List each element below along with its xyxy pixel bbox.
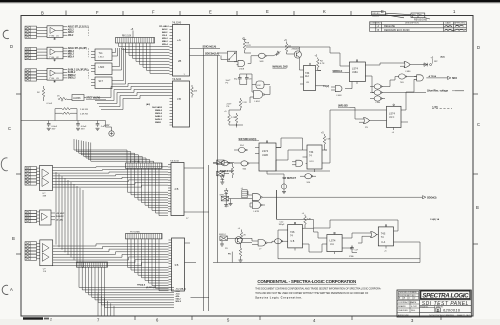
svg-text:DATE: DATE (411, 301, 417, 304)
svg-text:SMB2: SMB2 (155, 122, 162, 124)
svg-text:CHECKED: CHECKED (398, 310, 408, 312)
node output nets (68, 26, 90, 37)
buffer U34 74LS240 (172, 238, 185, 291)
svg-text:+5 LDC: +5 LDC (56, 220, 64, 222)
svg-text:2: 2 (50, 318, 52, 322)
buffer gate U12A (238, 147, 246, 152)
svg-text:LM336: LM336 (73, 97, 81, 100)
svg-text:LS24: LS24 (255, 101, 261, 103)
svg-text:E: E (209, 10, 212, 15)
svg-text:SPECTRA LOGIC: SPECTRA LOGIC (422, 293, 469, 300)
svg-text:4.7K: 4.7K (320, 63, 325, 65)
svg-text:SDICA#(2,4): SDICA#(2,4) (203, 46, 217, 49)
svg-text:TY90: TY90 (49, 36, 55, 38)
svg-text:4.7K: 4.7K (246, 45, 251, 47)
svg-text:RELEASE: RELEASE (384, 25, 395, 28)
diode CR1 (274, 51, 281, 56)
resistor R1 3K (43, 86, 45, 89)
flip-flop U9A 74S74 (300, 62, 325, 91)
resistor pack RN2 (241, 188, 248, 198)
resistor R5 (191, 85, 193, 87)
buffer U6 74LS240 (159, 23, 190, 76)
svg-text:6200016: 6200016 (443, 307, 461, 312)
wire J3 pin drops to U34 (128, 239, 169, 291)
wire (245, 53, 274, 63)
resistor R15 (304, 215, 306, 216)
scanner edge strip top (0, 0, 500, 2)
capacitor C4 (96, 122, 100, 127)
voltage ref U4 (72, 95, 84, 101)
wire J2 pin drops to U31 (128, 168, 169, 215)
wire X stub below (54, 37, 56, 40)
or gate U21 (364, 118, 370, 124)
svg-text:LS08: LS08 (239, 69, 245, 71)
resistor R17 (239, 248, 242, 256)
svg-text:MBL2: MBL2 (68, 54, 75, 56)
svg-text:1 B: 1 B (43, 271, 47, 273)
svg-text:+12V: +12V (104, 125, 110, 127)
and gate U8A LS08 (238, 60, 245, 66)
resistor R11 (228, 113, 230, 115)
wire sw gate links (234, 191, 418, 207)
wire bus A vertical (203, 48, 205, 311)
svg-text:TY90: TY90 (49, 57, 55, 59)
svg-text:+A: +A (177, 38, 181, 42)
connector pin P3 (217, 160, 225, 165)
comparator U30 (40, 166, 53, 191)
transistor Q2 (235, 237, 242, 244)
svg-text:C: C (477, 122, 480, 127)
inverter U20A (374, 84, 382, 89)
resistor pack RN1 strip (116, 28, 155, 43)
svg-text:F: F (96, 10, 99, 15)
dashed net right of U22C (432, 108, 452, 110)
svg-text:Short/Res. voltage: Short/Res. voltage (427, 90, 449, 93)
svg-text:RIP: RIP (434, 61, 438, 63)
flip-flop U25 LS74 (322, 232, 348, 254)
capacitor C2 (47, 122, 51, 127)
diode CR3 out (414, 63, 428, 67)
svg-text:ABL2: ABL2 (162, 31, 168, 34)
ground (229, 204, 233, 206)
wire vref (67, 98, 87, 100)
wire jumper in (218, 53, 228, 60)
svg-text:ZONE: ZONE (370, 23, 376, 25)
resistor R14 2K (240, 230, 242, 232)
confidential notice (255, 279, 381, 300)
node SDO output arrow (444, 76, 451, 79)
svg-text:APPROVED: APPROVED (398, 314, 410, 317)
connector pin P7 (217, 171, 225, 176)
svg-text:SMBL2: SMBL2 (68, 75, 77, 77)
svg-text:THIS DOCUMENT CONTAINS CONFIDE: THIS DOCUMENT CONTAINS CONFIDENTIAL AND … (255, 288, 381, 291)
svg-text:LS08: LS08 (337, 95, 343, 97)
svg-text:TY90: TY90 (49, 78, 55, 80)
svg-text:SADL2: SADL2 (155, 118, 163, 121)
svg-text:C-4(2) 1A: C-4(2) 1A (430, 218, 440, 221)
capacitor C13 (350, 246, 354, 251)
svg-text:E: E (266, 9, 269, 14)
resistor R7 1K (286, 42, 288, 44)
xor gate U18A (404, 62, 410, 68)
wire center links (267, 110, 330, 184)
svg-text:RN1 10K: RN1 10K (122, 36, 132, 38)
svg-text:W.H.: W.H. (411, 310, 416, 312)
connector strip J2 (126, 163, 163, 168)
wire X stub below (54, 80, 56, 83)
svg-text:SMBL2: SMBL2 (155, 110, 163, 112)
svg-text:SABL2 (1A,3P,1PL): SABL2 (1A,3P,1PL) (68, 68, 89, 71)
wire comparator outputs (63, 48, 67, 56)
nand gate U15B (252, 202, 260, 209)
oscillator Y1 group (226, 74, 271, 103)
and gate U23A (258, 240, 265, 246)
svg-text:ABLE STL(2,3) SL2: ABLE STL(2,3) SL2 (68, 26, 90, 29)
potentiometer R2 (58, 97, 66, 99)
wire buffer outputs riser (112, 48, 126, 84)
connector pins P4-1..6 (25, 242, 37, 245)
node output nets (68, 47, 87, 58)
wire X stub below (54, 59, 56, 62)
svg-text:2 B: 2 B (175, 187, 179, 191)
punch hole bottom-left (2, 285, 8, 294)
wire osc nets (229, 110, 243, 128)
comparator U2 LM339 (47, 47, 63, 59)
capacitor C3 (76, 122, 80, 127)
svg-text:D: D (10, 44, 13, 49)
comparator U31B (40, 210, 52, 225)
svg-text:180pF: 180pF (279, 224, 286, 226)
svg-text:A TD14: A TD14 (429, 75, 437, 78)
svg-text:U11B: U11B (262, 154, 268, 157)
svg-text:U.B: U.B (291, 241, 295, 243)
size and drawing number (420, 306, 460, 312)
svg-text:SADL2: SADL2 (68, 71, 76, 74)
node SDO7 output arrow (418, 196, 426, 199)
svg-text:S1T: S1T (99, 80, 104, 83)
svg-text:TP5(4) A: TP5(4) A (137, 284, 146, 287)
node J-column labels (176, 287, 186, 303)
svg-text:REVISIONS: REVISIONS (414, 19, 427, 22)
svg-text:U.A: U.A (381, 241, 385, 244)
svg-text:LS14: LS14 (99, 57, 105, 59)
wire pins to comparator (37, 70, 48, 79)
svg-text:MDL4: MDL4 (162, 43, 169, 46)
svg-text:LS86: LS86 (406, 71, 412, 73)
flip-flop U16A LS74 (345, 60, 372, 84)
svg-text:P4(2): P4(2) (324, 85, 330, 88)
svg-text:B: B (41, 11, 44, 16)
wire pins to comparator (37, 49, 48, 58)
svg-text:+12 LDC: +12 LDC (56, 213, 65, 215)
ground (224, 205, 228, 207)
svg-text:-12 LDC: -12 LDC (56, 216, 65, 218)
wire U11B to chain (276, 160, 330, 220)
connector strip J3 (126, 234, 163, 239)
svg-text:PROPRIETARY INFO: PROPRIETARY INFO (399, 294, 416, 297)
svg-text:LS74: LS74 (352, 68, 358, 71)
comparator U32 (40, 240, 53, 266)
svg-text:SDI TEST PANEL: SDI TEST PANEL (422, 301, 469, 307)
flip-flop U27 74S74 (378, 225, 400, 253)
resistor R6 4.7K (244, 40, 246, 42)
title block (397, 290, 471, 317)
resistor R8 4.7K (317, 58, 319, 60)
svg-text:P6 SDI(B): P6 SDI(B) (130, 232, 140, 234)
revision block tab (372, 11, 431, 19)
wire (37, 168, 40, 184)
svg-text:SABL2: SABL2 (155, 115, 163, 118)
buffer U5A (95, 49, 112, 61)
ground (239, 260, 243, 262)
buffer U18B (399, 74, 407, 79)
bottom-left scale smudge (23, 317, 52, 321)
svg-text:1A2 SAD2: 1A2 SAD2 (152, 106, 163, 109)
svg-text:ADLE STL(2A,3P): ADLE STL(2A,3P) (68, 47, 87, 50)
wire vertical drop bundle (56, 172, 83, 268)
power symbol E1 (281, 184, 286, 189)
svg-text:LS74: LS74 (330, 240, 336, 243)
svg-text:74LS240: 74LS240 (172, 23, 182, 25)
punch hole top-left (3, 30, 9, 38)
svg-text:MDL2: MDL2 (176, 301, 182, 303)
flip-flop U24B 74S74 (283, 222, 314, 250)
crystal Y1 (256, 81, 264, 89)
svg-text:2.2K: 2.2K (242, 102, 247, 104)
svg-text:MDL2: MDL2 (162, 38, 169, 40)
wire G4 output bundle to U31 (53, 167, 169, 187)
wire (37, 212, 56, 221)
wire pins to comparator (37, 28, 48, 37)
wire comparator outputs (63, 27, 67, 35)
connector pins group 1 (25, 26, 37, 29)
resistor R10 2.2K (240, 98, 242, 100)
svg-text:C: C (8, 126, 11, 131)
and gate U14A (296, 160, 303, 166)
diode CR2 zener (221, 175, 225, 182)
svg-text:CONFIDENTIAL - SPECTRA-LOGIC C: CONFIDENTIAL - SPECTRA-LOGIC CORPORATION (257, 279, 356, 284)
svg-text:SMDL2: SMDL2 (68, 78, 77, 80)
and gate U17A (335, 86, 342, 92)
wire comparator outputs (63, 70, 67, 78)
buffer U23B (275, 239, 283, 244)
resistor R12 (236, 113, 238, 115)
wire stair bundle upper (74, 139, 154, 163)
wire G6 output bundle to U33 (53, 244, 169, 266)
wire right block links (246, 47, 417, 119)
svg-text:Spectra Logic Corporation.: Spectra Logic Corporation. (255, 296, 302, 300)
connector strip J4 (77, 262, 108, 267)
svg-text:MBL2: MBL2 (162, 41, 169, 43)
svg-text:2N4403: 2N4403 (292, 49, 300, 51)
resistor R13 (324, 134, 326, 136)
wire bus B vertical (217, 55, 219, 262)
wire buffer inputs (91, 52, 95, 86)
svg-text:1PL ABL2: 1PL ABL2 (159, 25, 170, 28)
and gate U19 (417, 75, 424, 81)
connector pin SW1 (221, 196, 229, 201)
svg-text:LS0F: LS0F (99, 66, 105, 69)
comparator U1 LM339 (47, 26, 63, 38)
svg-text:REDRAWN ECO #1099: REDRAWN ECO #1099 (384, 29, 410, 32)
wire U6 output nets (190, 48, 221, 55)
connector pins P2-1..6 (25, 167, 37, 170)
svg-text:JDL2: JDL2 (68, 35, 74, 37)
svg-text:SW2-2: SW2-2 (219, 234, 226, 236)
svg-text:U1 C: U1 C (389, 117, 395, 119)
svg-text:F: F (152, 10, 155, 15)
svg-text:ABL2: ABL2 (68, 31, 75, 34)
wire stair to U7 (93, 83, 170, 109)
wire chain links (309, 220, 398, 253)
svg-text:0.1uF: 0.1uF (47, 103, 53, 105)
svg-text:LS74: LS74 (389, 113, 395, 116)
wire feedback bus (213, 230, 420, 263)
svg-text:D: D (437, 308, 440, 312)
node output nets (68, 68, 89, 79)
svg-text:74LS244: 74LS244 (170, 161, 180, 163)
svg-text:U16A: U16A (352, 71, 358, 74)
svg-text:B: B (476, 205, 479, 210)
svg-text:DWG NO: DWG NO (372, 13, 380, 15)
svg-text:2B: 2B (178, 59, 181, 63)
connector pins group 2 (25, 48, 37, 51)
inverter U35 (221, 161, 229, 166)
svg-text:LS74: LS74 (262, 149, 269, 153)
svg-text:2.4K R4: 2.4K R4 (80, 113, 89, 115)
punch hole mid-left (1, 158, 8, 171)
nand gate U15A (252, 194, 260, 201)
wire (37, 243, 40, 258)
inverter U20B (374, 90, 382, 95)
buffer U5C (95, 77, 112, 89)
svg-text:VREF (8.2V): VREF (8.2V) (86, 97, 100, 100)
flip-flop U11B LS74 (250, 141, 284, 174)
svg-text:JDL2: JDL2 (162, 35, 168, 37)
wire rn1 pin drops to U6 (119, 43, 170, 73)
wire +12 bus (21, 120, 106, 122)
svg-text:2.4K R3: 2.4K R3 (80, 109, 89, 111)
buffer U5B (95, 63, 112, 75)
connector pins P3-1..4 (25, 210, 37, 213)
comparator U3 LM339 (47, 69, 63, 81)
svg-text:DATE: DATE (446, 22, 452, 25)
revision history table (370, 22, 467, 32)
svg-text:C-4(2): C-4(2) (432, 106, 438, 109)
resistor R4 2.4K (62, 112, 70, 114)
svg-text:ADL2: ADL2 (68, 28, 75, 31)
or gate U26 (371, 232, 377, 238)
svg-text:112: 112 (305, 75, 309, 78)
svg-text:B: B (12, 236, 15, 241)
svg-text:SW1-2: SW1-2 (220, 194, 227, 196)
svg-text:SHEET 1 OF 1: SHEET 1 OF 1 (457, 315, 471, 317)
wire drops to border (98, 293, 114, 315)
Spectra Logic logo (421, 291, 470, 300)
buffer U14B (305, 174, 313, 179)
jumper W1 (228, 51, 237, 61)
capacitor C5 (238, 76, 242, 81)
connector pins group 3 (25, 69, 37, 72)
svg-text:APPROVED: APPROVED (454, 22, 466, 25)
svg-text:10K: 10K (194, 91, 198, 93)
svg-text:35V: 35V (81, 128, 85, 130)
svg-text:35V: 35V (52, 128, 56, 130)
svg-text:3 B: 3 B (177, 97, 181, 101)
resistor R3 2.4K (62, 108, 70, 110)
svg-text:ADL2: ADL2 (162, 28, 168, 31)
svg-text:(4) SDL(4): (4) SDL(4) (146, 286, 156, 289)
svg-text:U.A: U.A (330, 243, 334, 246)
svg-text:SDICB#(2,4): SDICB#(2,4) (205, 53, 219, 56)
connector pin SW2 (220, 236, 228, 241)
svg-text:A: A (10, 287, 13, 292)
nand gate U10 (254, 91, 263, 99)
svg-text:DESCRIPTION: DESCRIPTION (405, 23, 419, 25)
wire nested L bundle to labels (79, 267, 174, 307)
inverter U12B (241, 161, 249, 166)
svg-text:THIS DWG CONTAINS: THIS DWG CONTAINS (399, 291, 417, 294)
flip-flop U22C LS74 (382, 104, 408, 134)
svg-text:(A2): (A2) (146, 103, 150, 106)
svg-text:4-7-82: 4-7-82 (411, 306, 418, 308)
svg-text:2.2K: 2.2K (326, 139, 331, 141)
ground (220, 182, 224, 184)
svg-text:D: D (477, 45, 480, 50)
svg-text:MDL4: MDL4 (68, 55, 75, 58)
svg-text:DRAWN: DRAWN (398, 305, 406, 308)
svg-text:S/R SDICLK#(4): S/R SDICLK#(4) (239, 138, 257, 141)
wire U33 outputs (189, 168, 209, 212)
wire stub right margin (455, 90, 464, 92)
svg-text:3 B: 3 B (175, 263, 179, 267)
svg-text:K: K (323, 9, 326, 14)
flip-flop U13 74S74 (303, 145, 331, 172)
diode CR4 (224, 188, 228, 196)
resistor R16 (232, 163, 234, 166)
svg-text:74LS244: 74LS244 (172, 79, 182, 81)
svg-text:74S: 74S (400, 82, 404, 84)
transistor Q1 (294, 51, 301, 58)
svg-text:SW DETECT: SW DETECT (283, 178, 297, 180)
svg-text:SDO: SDO (452, 78, 457, 80)
node +12 LED nets (56, 213, 65, 222)
approval scribbles (445, 25, 467, 30)
capacitor C6 (245, 76, 249, 81)
svg-text:-B(2): -B(2) (440, 57, 445, 59)
buffer U8B (258, 53, 266, 58)
svg-text:FSCM NO.: FSCM NO. (420, 306, 429, 308)
node TP labels (137, 284, 156, 290)
svg-text:SDO#(3): SDO#(3) (427, 197, 437, 200)
svg-text:DO NOT SCALE DRAWING: DO NOT SCALE DRAWING (429, 314, 454, 317)
svg-text:MDL2: MDL2 (68, 51, 75, 53)
svg-text:MANUAL DH2: MANUAL DH2 (273, 65, 289, 68)
svg-text:6200016: 6200016 (372, 16, 379, 18)
power symbol +12V (109, 131, 114, 136)
buffer U7 74LS240 (146, 79, 190, 127)
wire q1 top (287, 46, 300, 48)
inverter U20C (374, 96, 382, 101)
svg-text:SMDL2: SMDL2 (155, 113, 163, 115)
svg-text:TL1: TL1 (99, 52, 104, 55)
svg-text:LS?R: LS?R (254, 211, 260, 213)
buffer U33 74LS240 (171, 163, 184, 216)
svg-text:TION AND MAY NOT BE USED OR CO: TION AND MAY NOT BE USED OR COPIED WITHO… (255, 292, 369, 295)
